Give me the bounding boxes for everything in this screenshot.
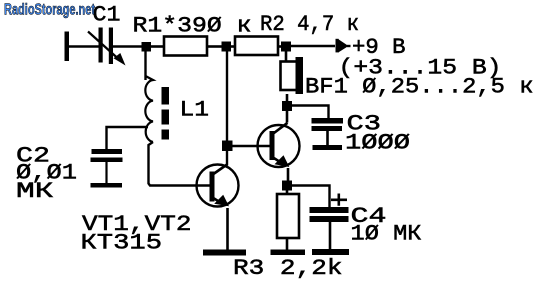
ground under R3 bbox=[271, 250, 306, 256]
ground under VT1 bbox=[203, 250, 246, 256]
wire node B down to node F bbox=[226, 52, 228, 141]
wire node F to VT2 base bbox=[233, 145, 270, 147]
wire node D to C3 bbox=[292, 106, 329, 119]
ground under C2 bbox=[91, 183, 123, 188]
transistor VT2 bbox=[258, 123, 300, 167]
wire node G to C4 bbox=[292, 186, 330, 208]
node D bbox=[282, 101, 292, 111]
svg-text:МК: МК bbox=[16, 179, 54, 204]
inductor L1 bbox=[145, 76, 169, 142]
wire node A down to L1 bbox=[144, 52, 146, 81]
wire node C to +9V arrow bbox=[291, 45, 335, 47]
wire VT1 emitter down bbox=[226, 208, 229, 250]
wire node D to VT2 collector bbox=[286, 111, 289, 123]
plus sign C4 polarity bbox=[331, 194, 347, 206]
wire BF1 to node D bbox=[286, 94, 289, 101]
antenna input terminal bbox=[65, 32, 70, 62]
svg-text:R1*39Ø к: R1*39Ø к bbox=[133, 14, 252, 39]
svg-text:C1: C1 bbox=[93, 3, 121, 28]
capacitor C3 bbox=[312, 118, 344, 146]
wire L1 bottom to VT1 base bbox=[149, 142, 210, 186]
svg-text:R3 2,2k: R3 2,2k bbox=[233, 256, 343, 281]
wire R1 to node B bbox=[207, 45, 222, 48]
node G VT2 emitter junction bbox=[282, 181, 292, 191]
ground under C3 bbox=[313, 145, 343, 150]
resistor R1 bbox=[164, 37, 207, 56]
node A bbox=[142, 42, 152, 52]
ground under C4 bbox=[312, 249, 349, 255]
resistor R2 bbox=[235, 37, 278, 56]
resistor R3 bbox=[277, 194, 299, 238]
svg-text:КТ315: КТ315 bbox=[81, 231, 163, 256]
wire antenna to C1 bbox=[69, 45, 99, 48]
transistor VT1 bbox=[197, 165, 239, 207]
svg-text:1Ø МК: 1Ø МК bbox=[351, 222, 422, 247]
wire C1 to node A bbox=[113, 45, 142, 48]
svg-text:1ØØØ: 1ØØØ bbox=[345, 131, 410, 156]
capacitor C1 (variable) bbox=[88, 28, 126, 66]
wire VT2 emitter to node G bbox=[287, 168, 290, 181]
node F junction VT1 collector / VT2 base bbox=[222, 141, 233, 152]
svg-text:RadioStorage.net: RadioStorage.net bbox=[4, 2, 95, 19]
wire node F down to VT1 collector bbox=[226, 151, 228, 166]
headphone BF1 bbox=[281, 57, 304, 94]
wire node A to R1 bbox=[151, 45, 164, 48]
wire R2 to node C bbox=[278, 45, 281, 48]
wire R3 to ground bbox=[286, 238, 289, 250]
wire node B to R2 bbox=[231, 45, 235, 48]
svg-text:BF1 Ø,25...2,5 к: BF1 Ø,25...2,5 к bbox=[305, 75, 534, 100]
capacitor C2 bbox=[91, 149, 123, 183]
wire node G to R3 bbox=[286, 191, 289, 195]
node C bbox=[281, 42, 291, 52]
node B bbox=[222, 42, 232, 52]
capacitor C4 bbox=[310, 207, 349, 249]
svg-text:L1: L1 bbox=[180, 98, 210, 123]
+9V supply arrow bbox=[336, 39, 351, 53]
wire L1 tap to C2 bbox=[107, 127, 149, 149]
svg-text:R2 4,7 к: R2 4,7 к bbox=[260, 12, 359, 37]
wire node C to BF1 bbox=[285, 52, 288, 63]
